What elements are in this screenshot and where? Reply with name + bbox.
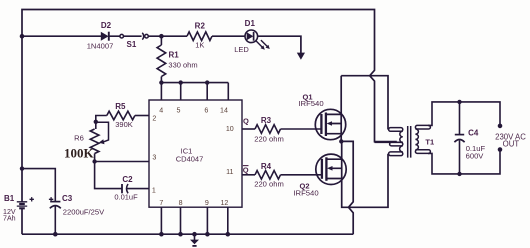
transformer T1 primary winding	[389, 128, 403, 132]
wire: R3 to Q1 gate	[281, 128, 322, 130]
arrow: rail branch terminator (down arrow)	[297, 53, 305, 60]
svg-text:12: 12	[220, 199, 228, 207]
svg-text:220 ohm: 220 ohm	[254, 180, 284, 189]
svg-text:0.01uF: 0.01uF	[114, 192, 138, 201]
svg-text:IRF540: IRF540	[293, 188, 318, 197]
svg-text:330 ohm: 330 ohm	[168, 61, 197, 70]
capacitor C2 0.01uF	[121, 184, 123, 193]
svg-text:10: 10	[226, 125, 234, 133]
svg-text:C4: C4	[468, 129, 479, 138]
ground symbol	[194, 234, 196, 240]
svg-text:CD4047: CD4047	[176, 154, 204, 163]
svg-text:1K: 1K	[195, 40, 204, 49]
resistor R1 330 ohm	[160, 36, 162, 45]
resistor R2 1K	[187, 32, 212, 41]
svg-text:S1: S1	[127, 40, 137, 49]
resistor R4 220 ohm	[255, 171, 281, 180]
svg-text:2: 2	[152, 114, 156, 122]
svg-text:8: 8	[179, 199, 183, 207]
wire: pin 10 Q output to R3	[242, 128, 255, 130]
node: bus junctions	[159, 80, 163, 84]
svg-text:1N4007: 1N4007	[87, 41, 114, 50]
wire: +12V top rail from battery positive to transformer center tap	[22, 10, 397, 202]
svg-text:1: 1	[152, 186, 156, 194]
node: junction rail / R1	[159, 34, 164, 39]
wire: switched +12V rail (y=36)	[22, 36, 301, 54]
svg-text:100K: 100K	[64, 145, 95, 160]
svg-text:11: 11	[226, 168, 233, 176]
svg-text:7: 7	[159, 199, 163, 207]
svg-text:2200uF/25V: 2200uF/25V	[63, 208, 105, 217]
svg-text:390K: 390K	[115, 120, 133, 129]
svg-text:600V: 600V	[466, 151, 485, 160]
potentiometer R6 100K	[90, 129, 99, 154]
wire: Q2 drain to transformer primary bottom	[342, 154, 388, 208]
switch S1	[120, 34, 124, 38]
resistor R5 390K	[135, 115, 149, 117]
svg-text:220 ohm: 220 ohm	[254, 135, 284, 144]
wire: bus to IC pins 4,5,6,14	[161, 83, 228, 100]
LED D1	[245, 30, 258, 43]
node: source junction	[339, 139, 343, 143]
svg-text:Q: Q	[243, 116, 249, 125]
wire: IC pins 7,8,9,12 to ground rail	[161, 207, 227, 234]
svg-text:R4: R4	[261, 162, 272, 171]
transformer T1 secondary winding	[415, 125, 430, 129]
wire: branch to C3	[22, 169, 55, 202]
diode D2 1N4007	[101, 32, 109, 41]
transformer T1 core	[408, 126, 411, 158]
svg-text:D2: D2	[101, 21, 112, 30]
svg-text:T1: T1	[425, 137, 434, 146]
svg-text:R2: R2	[195, 21, 206, 30]
wire: R4 to Q2 gate	[281, 174, 322, 176]
transistor Q2 IRF540	[316, 154, 346, 184]
svg-text:R1: R1	[168, 51, 179, 60]
node: pot bottom junction / pin 3	[92, 159, 96, 163]
svg-text:Q: Q	[243, 165, 249, 174]
wire: pin 11 Qbar output to R4	[242, 174, 255, 176]
svg-text:9: 9	[205, 199, 209, 207]
svg-text:IRF540: IRF540	[298, 99, 323, 108]
wire: ground bottom rail	[22, 233, 353, 235]
wire: pot bottom to pin 3	[95, 154, 149, 162]
svg-text:7Ah: 7Ah	[3, 215, 16, 223]
node: pot top junction	[94, 120, 98, 124]
node: output terminals 230V AC OUT	[498, 124, 503, 129]
svg-text:OUT: OUT	[503, 139, 520, 148]
svg-text:4: 4	[159, 107, 163, 115]
wire: Q1/Q2 sources join to ground rail (hops over drain wire)	[341, 134, 353, 235]
node: ground rail junctions	[53, 232, 58, 237]
svg-text:3: 3	[152, 154, 156, 162]
node: battery rail / C3 branch	[20, 166, 24, 170]
svg-text:C3: C3	[62, 194, 73, 203]
svg-text:5: 5	[177, 107, 181, 115]
op-amp U1: IC1 CD4047 box	[149, 100, 242, 207]
svg-text:C2: C2	[122, 175, 133, 184]
battery B1 12V 7Ah	[17, 202, 27, 206]
resistor R3 220 ohm	[255, 125, 281, 134]
svg-text:R5: R5	[115, 102, 126, 111]
wire: pot bottom down to C2 / pin 1	[95, 162, 149, 189]
svg-text:14: 14	[220, 107, 228, 115]
capacitor C3 2200uF/25V	[50, 201, 60, 203]
node: junction of battery positive and switched rail	[20, 34, 25, 39]
svg-text:B1: B1	[4, 194, 15, 203]
wire: secondary to output loop	[428, 102, 500, 174]
wire: Q1 drain to transformer primary top	[341, 76, 388, 130]
svg-text:6: 6	[204, 107, 208, 115]
svg-text:D1: D1	[245, 19, 256, 28]
svg-text:LED: LED	[234, 45, 249, 54]
transistor Q1 IRF540	[315, 109, 345, 139]
svg-text:R3: R3	[261, 116, 272, 125]
svg-text:R6: R6	[74, 133, 84, 142]
capacitor C4 0.1uF 600V	[459, 102, 461, 174]
